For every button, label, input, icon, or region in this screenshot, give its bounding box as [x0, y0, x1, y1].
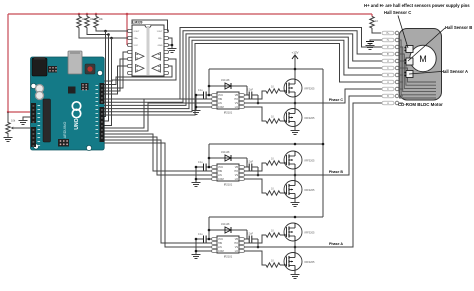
svg-text:IRF3205: IRF3205	[305, 87, 316, 91]
svg-text:Hall Sensor B: Hall Sensor B	[445, 25, 472, 30]
svg-text:HIN: HIN	[218, 170, 222, 173]
svg-text:IR2101: IR2101	[224, 255, 233, 259]
svg-text:HIN: HIN	[218, 242, 222, 245]
svg-text:Hall Sensor A: Hall Sensor A	[441, 69, 468, 74]
svg-text:2.2uF: 2.2uF	[247, 233, 254, 236]
svg-text:LIN: LIN	[218, 102, 222, 105]
svg-text:+12V: +12V	[291, 51, 298, 55]
svg-text:ARDUINO: ARDUINO	[63, 122, 67, 139]
svg-text:LIN: LIN	[218, 174, 222, 177]
svg-text:Phase B: Phase B	[329, 170, 344, 174]
svg-text:Phase A: Phase A	[329, 242, 343, 246]
svg-text:1OUT: 1OUT	[157, 31, 163, 33]
svg-text:1N4148: 1N4148	[221, 151, 230, 154]
svg-text:IRF3205: IRF3205	[305, 188, 316, 192]
svg-text:VCC: VCC	[218, 166, 223, 169]
svg-text:H-: H-	[387, 40, 390, 42]
svg-text:10k: 10k	[99, 17, 104, 21]
svg-text:LO: LO	[235, 250, 238, 253]
svg-text:CD-ROM BLDC Motor: CD-ROM BLDC Motor	[398, 102, 443, 107]
svg-text:IR2101: IR2101	[224, 183, 233, 187]
svg-text:LO: LO	[235, 178, 238, 181]
svg-text:HO: HO	[234, 170, 238, 173]
svg-text:2OUT: 2OUT	[134, 31, 140, 33]
svg-text:LIN: LIN	[218, 246, 222, 249]
svg-text:Hall Sensor C: Hall Sensor C	[384, 10, 411, 15]
svg-text:2.2uF: 2.2uF	[247, 89, 254, 92]
svg-text:IRF3205: IRF3205	[305, 159, 316, 163]
svg-text:Phase C: Phase C	[329, 98, 344, 102]
svg-text:10k: 10k	[11, 119, 16, 123]
svg-text:VCC: VCC	[134, 45, 139, 47]
svg-text:1IN+: 1IN+	[158, 38, 163, 40]
svg-text:IRF3205: IRF3205	[305, 231, 316, 235]
svg-text:IRF3205: IRF3205	[305, 116, 316, 120]
svg-text:VCC: VCC	[218, 238, 223, 241]
svg-text:H+ and H- are hall effect sens: H+ and H- are hall effect sensors power …	[364, 3, 470, 8]
svg-text:IRF3205: IRF3205	[305, 260, 316, 264]
svg-text:GND: GND	[158, 45, 163, 47]
svg-text:LO: LO	[235, 106, 238, 109]
svg-text:UNO: UNO	[74, 118, 80, 129]
svg-text:VB: VB	[235, 166, 239, 169]
svg-text:1N4148: 1N4148	[221, 79, 230, 82]
svg-text:COM: COM	[218, 250, 224, 253]
svg-text:VS: VS	[235, 246, 239, 249]
svg-text:VCC: VCC	[218, 94, 223, 97]
svg-text:IR2101: IR2101	[224, 111, 233, 115]
svg-text:VB: VB	[235, 238, 239, 241]
svg-text:0.1u: 0.1u	[198, 233, 203, 236]
svg-text:HO: HO	[234, 242, 238, 245]
svg-text:HO: HO	[234, 98, 238, 101]
svg-text:2IN+: 2IN+	[134, 38, 139, 40]
svg-text:COM: COM	[218, 106, 224, 109]
svg-text:HIN: HIN	[218, 98, 222, 101]
svg-text:0.1u: 0.1u	[198, 161, 203, 164]
svg-text:VS: VS	[235, 102, 239, 105]
svg-text:VB: VB	[235, 94, 239, 97]
svg-text:COM: COM	[218, 178, 224, 181]
svg-text:0.1u: 0.1u	[198, 89, 203, 92]
svg-text:LM339: LM339	[133, 21, 143, 25]
svg-text:VS: VS	[235, 174, 239, 177]
svg-text:M: M	[419, 54, 427, 64]
svg-text:2.2uF: 2.2uF	[247, 161, 254, 164]
svg-text:1N4148: 1N4148	[221, 223, 230, 226]
